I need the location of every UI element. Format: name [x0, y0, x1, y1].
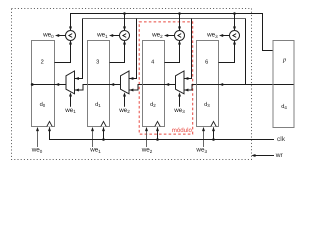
arrow clk into d2 — [156, 127, 159, 131]
wire we2 select to mux M1 — [124, 96, 126, 107]
svg-text:3: 3 — [96, 59, 99, 65]
clock triangle of d1 — [101, 121, 106, 126]
comparator C3 — [230, 31, 240, 41]
node bus A junction at stage 1 — [123, 12, 126, 15]
wire bus A riser into comparator C3 top — [234, 14, 236, 31]
red dashed box around modulo stage — [139, 22, 193, 134]
arrow into mux M1 bottom input — [129, 89, 133, 92]
arrow into d2 right edge — [165, 83, 169, 86]
arrow into mux M0 bottom input — [75, 89, 79, 92]
arrow into mux M1 top input — [129, 77, 133, 80]
wire bus B (mux data bus) — [83, 18, 246, 20]
register column box 1 (constant 3 over d1) — [88, 41, 110, 127]
mux M2 — [176, 71, 185, 94]
arrow into comparator C2 bottom — [178, 40, 181, 44]
mux M0 — [66, 71, 75, 94]
wire clk riser to d3 — [213, 127, 215, 139]
wire box 3 value to comparator C3 — [219, 41, 235, 63]
arrow mux M2 select — [178, 92, 181, 96]
node junction on d0 wire at box left edge — [31, 83, 34, 86]
wire bus B riser to mux M2 top input — [184, 19, 191, 79]
wire mux M1 output through register box 1 — [88, 84, 121, 86]
wire bus B riser to mux M0 top input — [75, 19, 83, 79]
wire next-stage net jog into mux M0 bottom input — [75, 85, 88, 91]
svg-text:2: 2 — [41, 59, 44, 65]
arrow we1 output — [109, 34, 113, 37]
arrow we2 output — [164, 34, 168, 37]
arrow clk into d0 — [48, 127, 51, 131]
arrow clk into d1 — [102, 127, 105, 131]
wire we0 stub from bottom label to d0 — [37, 130, 39, 147]
wire we2 stub from bottom label to d2 — [146, 130, 148, 147]
comparator C1 — [120, 31, 130, 41]
arrow into d0 right edge — [55, 83, 59, 86]
wire bus A riser into comparator C2 top — [179, 14, 181, 31]
node clk junction stage 1 — [102, 138, 105, 141]
wire box 1 value to comparator C1 — [110, 41, 125, 63]
outer dotted module border — [12, 9, 252, 160]
wire clk distribution line — [50, 127, 275, 139]
arrow into d1 right edge — [110, 83, 114, 86]
node clk junction stage 3 — [212, 138, 215, 141]
arrow into comparator C2 top — [178, 27, 181, 31]
register column box 2 (constant 4 over d2) — [143, 41, 165, 127]
register column box p/d4 — [273, 41, 294, 128]
arrow into mux M2 bottom input — [184, 89, 188, 92]
svg-text:módulo: módulo — [172, 127, 193, 134]
wire we3 select to mux M2 — [179, 96, 181, 107]
arrow we3 output — [219, 34, 223, 37]
comparator C2 — [175, 31, 185, 41]
arrow into mux M2 top input — [184, 77, 188, 80]
wire bus A (input value bus to comparators and p box) — [70, 14, 273, 51]
clock triangle of d0 — [47, 121, 52, 126]
arrow into comparator C0 bottom — [69, 40, 72, 44]
svg-text:wr: wr — [275, 152, 284, 159]
arrow clk into d3 — [212, 127, 215, 131]
svg-text:6: 6 — [205, 59, 208, 65]
wire bus B riser to mux M1 top input — [129, 19, 136, 79]
wire we1 select to mux M0 — [70, 96, 72, 107]
wire next-stage net jog into mux M2 bottom input — [184, 85, 197, 91]
wire clk riser to d0 — [49, 127, 51, 139]
wire box 0 value to comparator C0 — [55, 41, 71, 63]
arrow into comparator C1 top — [123, 27, 126, 31]
wire comparator C2 output to we2 — [167, 35, 175, 37]
arrow we0 into d0 bottom — [36, 127, 39, 131]
wire clk riser to d1 — [103, 127, 105, 139]
mux M1 — [121, 71, 130, 94]
wire we3 stub from bottom label to d3 — [203, 130, 205, 147]
arrow into comparator C1 bottom — [123, 40, 126, 44]
arrow into comparator C3 bottom — [233, 40, 236, 44]
arrow into comparator C3 top — [233, 27, 236, 31]
node bus A junction at stage 2 — [178, 12, 181, 15]
arrow mux M1 select — [123, 92, 126, 96]
arrow we1 into d1 bottom — [91, 127, 94, 131]
clock triangle of d2 — [155, 121, 160, 126]
wire next-stage net jog into mux M1 bottom input — [129, 85, 143, 91]
svg-text:p: p — [282, 56, 286, 63]
register column box 3 (constant 6 over d3) — [197, 41, 219, 127]
svg-text:4: 4 — [151, 59, 154, 65]
wire bus A riser into comparator C1 top — [124, 14, 126, 31]
wire mux M2 output through register box 2 — [143, 84, 176, 86]
node bus A junction at stage 3 — [233, 12, 236, 15]
wire bus B final riser into d3 input net — [245, 19, 247, 85]
arrow we3 into d3 bottom — [202, 127, 205, 131]
arrow wr into module border — [251, 154, 255, 157]
wire clk riser to d2 — [157, 127, 159, 139]
wire mux M0 output through register box 0 — [32, 84, 66, 86]
wire we1 stub from bottom label to d1 — [92, 130, 94, 147]
wire bus A riser into comparator C0 top — [70, 14, 72, 31]
arrow into d3 right edge — [219, 83, 223, 86]
wire box 2 value to comparator C2 — [165, 41, 180, 63]
svg-text:clk: clk — [277, 136, 286, 143]
comparator C2 less-than symbol — [178, 34, 181, 38]
arrow into mux M0 top input — [75, 77, 79, 80]
comparator C1 less-than symbol — [123, 34, 126, 38]
comparator C0 less-than symbol — [69, 34, 72, 38]
arrow we0 output — [55, 34, 59, 37]
clock triangle of d3 — [211, 121, 216, 126]
node clk junction stage 2 — [156, 138, 159, 141]
comparator C3 less-than symbol — [233, 34, 236, 38]
wire comparator C1 output to we1 — [112, 35, 120, 37]
wire comparator C3 output to we3 — [222, 35, 230, 37]
arrow mux M0 select — [69, 92, 72, 96]
arrow we2 into d2 bottom — [145, 127, 148, 131]
wire wr input — [253, 155, 274, 157]
register column box 0 (constant 2 over d0) — [32, 41, 55, 127]
arrow into comparator C0 top — [69, 27, 72, 31]
wire d3 input net from p column through register box 3 — [197, 84, 294, 86]
wire comparator C0 output to we0 — [58, 35, 66, 37]
comparator C0 — [66, 31, 76, 41]
